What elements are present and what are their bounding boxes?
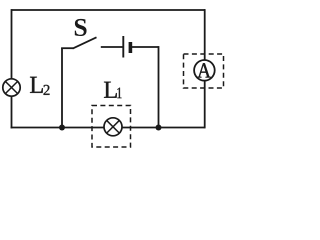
- label L1: [104, 82, 122, 98]
- dashed box around lamp L1: [92, 106, 131, 148]
- wire: right side lower (ammeter to bottom-right corner): [204, 80, 206, 128]
- junction dot (battery branch / bottom wire): [156, 125, 162, 131]
- battery: [123, 36, 130, 58]
- wire: bottom side left (to lamp L1): [11, 127, 105, 129]
- dashed box around ammeter: [184, 54, 224, 88]
- lamp L1: [104, 118, 122, 136]
- wire: top side: [12, 9, 206, 11]
- switch S: [61, 37, 123, 48]
- ammeter A: [194, 60, 215, 81]
- wire: switch branch vertical riser: [61, 48, 63, 128]
- wire: left side lower (lamp L2 to bottom corner): [11, 96, 13, 128]
- junction dot (switch branch / bottom wire): [59, 125, 65, 131]
- wire: middle branch vertical down to bottom wire: [158, 46, 160, 127]
- wire: bottom side right (lamp L1 to bottom-right corner): [122, 127, 205, 129]
- lamp L2: [3, 79, 20, 96]
- label L2: [30, 77, 50, 95]
- wire: right side upper (top corner to ammeter): [204, 9, 206, 60]
- wire: left side upper (top corner to lamp L2): [11, 9, 13, 79]
- label S: [75, 19, 87, 36]
- wire: battery to corner of middle branch: [132, 46, 159, 48]
